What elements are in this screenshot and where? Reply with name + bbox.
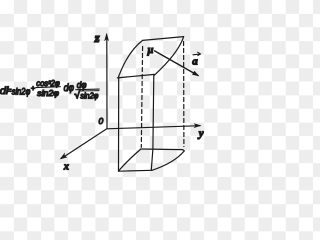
y-axis	[107, 123, 202, 129]
radical overbar	[80, 90, 99, 92]
bottom surface back edge	[141, 149, 184, 151]
vector a line	[155, 51, 200, 76]
fraction bar	[36, 86, 60, 89]
top surface left curve	[119, 40, 143, 76]
top surface right curve	[154, 37, 184, 76]
svg-text:a: a	[192, 56, 198, 68]
svg-text:x: x	[63, 161, 69, 172]
box front-top edge	[117, 74, 154, 78]
bottom surface right curve	[152, 151, 184, 170]
svg-text:sin2φ: sin2φ	[80, 91, 99, 100]
svg-text:0: 0	[99, 116, 104, 126]
hidden back-right edge (dashed)	[183, 42, 185, 147]
vector a label	[192, 52, 200, 67]
svg-text:+: +	[31, 84, 36, 93]
svg-text:y: y	[197, 128, 204, 140]
hidden back-left edge (dashed)	[141, 47, 142, 148]
fraction bar	[76, 88, 99, 91]
bottom surface left curve	[119, 149, 141, 171]
box front-left edge	[118, 76, 120, 171]
z-axis	[104, 33, 109, 129]
x-axis	[60, 129, 107, 160]
box front-right edge	[151, 75, 154, 171]
svg-text:dφ: dφ	[77, 80, 87, 90]
bottom front edge	[119, 169, 152, 172]
svg-text:sin2φ: sin2φ	[37, 88, 59, 98]
top surface back edge	[143, 37, 184, 41]
svg-text:μ: μ	[147, 45, 154, 56]
svg-text:sin2φ: sin2φ	[12, 87, 31, 97]
svg-text:dφ: dφ	[64, 83, 75, 94]
svg-text:z: z	[94, 30, 101, 45]
